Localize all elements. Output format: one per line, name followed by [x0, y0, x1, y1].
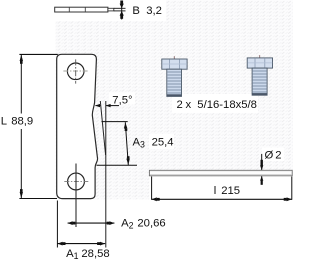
l 215 label on white box — [196, 182, 244, 198]
svg-text:B3,2: B3,2 — [132, 5, 162, 17]
A1 dimension extension lines — [56, 201, 58, 248]
A2 dimension line with outside arrows — [68, 222, 115, 224]
white box behind diameter 2 label — [262, 148, 284, 162]
white box behind 7,5 deg label — [109, 93, 135, 105]
svg-text:7,5°: 7,5° — [112, 94, 132, 106]
angled reference line for 7.5 deg — [100, 101, 105, 155]
A3 dimension extension lines — [102, 121, 128, 123]
svg-text:2x5/16-18x5/8: 2x5/16-18x5/8 — [177, 99, 257, 111]
bottom hole centerline vertical (extends to A2 dimension) — [75, 164, 77, 228]
B dimension line with outside arrows — [121, 1, 123, 20]
white box behind 25,4 label — [149, 134, 174, 149]
diameter 2 leader with arrows — [261, 154, 263, 170]
white box behind bolt caption — [172, 94, 258, 113]
top hole centerlines — [63, 70, 89, 72]
l 215 dimension line — [152, 198, 292, 200]
bottom hole of plate — [68, 173, 85, 190]
bolt 2 — [247, 55, 272, 95]
top edge view of plate — [55, 7, 108, 12]
white box behind top edge view and B dimension — [48, 0, 166, 21]
l 215 dimension extension lines — [151, 177, 153, 200]
svg-text:A128,58: A128,58 — [66, 248, 110, 261]
A3 dimension line (parallel to bent edge) — [125, 122, 128, 165]
B dimension extension lines — [114, 7, 126, 9]
bottom hole centerline horizontal — [64, 180, 88, 182]
svg-text:L88,9: L88,9 — [1, 116, 34, 128]
white box below long rod (l 215 area) — [149, 176, 293, 199]
svg-text:Ø2: Ø2 — [265, 150, 282, 162]
bracket plate front view — [57, 54, 98, 198]
7.5 deg dimension arrows — [95, 105, 100, 107]
bolt 1 — [162, 56, 187, 96]
L dimension line — [20, 55, 22, 114]
hole silhouette lines in edge view — [68, 7, 70, 11]
L dimension extension lines — [19, 53, 57, 55]
textured drawing background — [56, 0, 294, 199]
long rod side view (l 215) — [149, 170, 292, 176]
top hole of plate — [67, 63, 84, 80]
bent lip in edge view — [108, 8, 114, 11]
A1 dimension line with inside arrows — [57, 243, 105, 245]
svg-text:25,4: 25,4 — [152, 137, 174, 149]
svg-text:A220,66: A220,66 — [121, 217, 166, 230]
vertical reference line (extends down to A1/A2 dimensions) — [105, 101, 107, 248]
